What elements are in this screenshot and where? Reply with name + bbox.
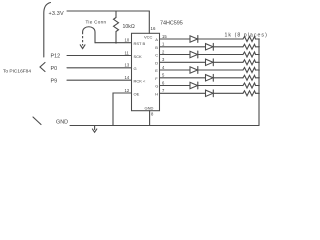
resistor R3 [243, 44, 256, 49]
output row QE pin 4 [160, 65, 260, 74]
resistor R7 [243, 75, 256, 80]
junction dot [258, 85, 260, 87]
svg-text:14: 14 [125, 75, 130, 80]
wire resistor bus to ground [258, 39, 260, 126]
LED D6 [206, 75, 214, 81]
svg-text:A: A [155, 37, 158, 42]
svg-text:GND: GND [145, 106, 154, 111]
resistor R1 lead bottom [115, 32, 117, 43]
LED D5 [190, 67, 198, 73]
resistor R1 10k body [114, 18, 119, 32]
junction dot [258, 77, 260, 79]
wire LED to resistor [213, 92, 243, 94]
wire ground rail [70, 125, 259, 127]
wire resistor to bus [256, 61, 260, 63]
wire QF to LED [160, 77, 206, 79]
svg-text:RST B: RST B [134, 41, 146, 46]
resistor R4 [243, 52, 256, 57]
svg-text:E: E [155, 68, 158, 73]
wire GND pin 8 [149, 111, 151, 126]
svg-text:G: G [155, 84, 158, 89]
svg-text:D: D [155, 60, 158, 65]
resistor R2 [243, 37, 256, 42]
svg-text:Tie Conn: Tie Conn [86, 20, 107, 25]
wire resistor to bus [256, 46, 260, 48]
junction dot [258, 46, 260, 48]
LED D1 [190, 36, 198, 42]
wire resistor to bus [256, 69, 260, 71]
output row QD pin 3 [160, 57, 260, 66]
svg-text:16: 16 [151, 26, 156, 31]
wire loop over SRCLR [83, 27, 95, 43]
connector tick GND [33, 117, 41, 125]
wire QB to LED [160, 46, 206, 48]
LED D2 [206, 44, 214, 50]
wire pin 12 to ground [113, 93, 132, 126]
LED D7 [190, 82, 198, 88]
junction dot [258, 54, 260, 56]
wire resistor to bus [256, 92, 260, 94]
svg-text:To PIC16F84: To PIC16F84 [3, 69, 31, 75]
wire QE to LED [160, 69, 191, 71]
wire LED to resistor [198, 38, 243, 40]
svg-text:B: B [155, 45, 158, 50]
dashed arrow to ground [82, 32, 84, 46]
wire QC to LED [160, 54, 191, 56]
svg-text:11: 11 [125, 50, 130, 55]
wire LED to resistor [198, 85, 243, 87]
svg-text:P0: P0 [51, 66, 58, 72]
svg-text:C: C [155, 53, 158, 58]
wire +3.3V rail [67, 10, 149, 12]
wire QA to LED [160, 38, 191, 40]
output row QH pin 7 [160, 88, 260, 97]
wire +3.3V drop to connector [44, 3, 51, 58]
wire QD to LED [160, 61, 206, 63]
svg-text:OE: OE [134, 91, 140, 96]
output row QF pin 5 [160, 73, 260, 82]
output row QA pin 15 [160, 34, 260, 43]
svg-text:74HC595: 74HC595 [160, 21, 183, 27]
svg-text:13: 13 [125, 63, 130, 68]
wire VCC pin 16 [148, 11, 150, 33]
svg-text:P12: P12 [51, 54, 61, 60]
wire resistor to bus [256, 85, 260, 87]
wire pin 10 SRCLR [95, 42, 132, 44]
wire LED to resistor [213, 61, 243, 63]
LED D8 [206, 90, 214, 96]
svg-text:VCC: VCC [144, 35, 153, 40]
wire P0 to pin 13 [67, 67, 132, 69]
svg-text:P9: P9 [51, 79, 58, 85]
wire resistor to bus [256, 77, 260, 79]
ground arrowhead [92, 129, 96, 132]
wire LED to resistor [213, 77, 243, 79]
svg-text:H: H [155, 91, 158, 96]
resistor R8 [243, 83, 256, 88]
wire resistor to bus [256, 38, 260, 40]
resistor R5 [243, 60, 256, 65]
wire resistor to bus [256, 54, 260, 56]
wire LED to resistor [198, 69, 243, 71]
arrowhead down [80, 45, 85, 49]
svg-text:RCK <: RCK < [134, 79, 147, 84]
IC U1 74HC595 body [132, 33, 160, 110]
junction dot [258, 38, 260, 40]
LED D4 [206, 59, 214, 65]
junction dot pin10 node [115, 42, 117, 44]
wire QH to LED [160, 92, 206, 94]
svg-text:1k (8 places): 1k (8 places) [225, 33, 268, 39]
svg-text:15: 15 [162, 34, 167, 39]
svg-text:GND: GND [56, 120, 68, 126]
resistor R1 pullup lead top [115, 11, 117, 18]
junction dot [258, 62, 260, 64]
svg-text:G: G [134, 66, 137, 71]
wire LED to resistor [213, 46, 243, 48]
output row QC pin 2 [160, 49, 260, 58]
LED D3 [190, 51, 198, 57]
resistor R6 [243, 68, 256, 73]
svg-text:10: 10 [125, 38, 130, 43]
wire LED to resistor [198, 54, 243, 56]
svg-text:SCK: SCK [134, 54, 143, 59]
junction dot [258, 93, 260, 95]
wire P12 to pin 11 [67, 55, 132, 57]
output row QG pin 6 [160, 80, 260, 89]
svg-text:12: 12 [125, 88, 130, 93]
junction dot [258, 69, 260, 71]
wire QG to LED [160, 85, 191, 87]
svg-text:10kΩ: 10kΩ [123, 24, 135, 30]
wire P9 to pin 14 [67, 79, 132, 81]
connector bracket [40, 63, 45, 72]
resistor R9 [243, 91, 256, 96]
svg-text:+3.3V: +3.3V [49, 11, 64, 17]
output row QB pin 1 [160, 42, 260, 51]
ground arrow symbol [94, 126, 96, 130]
